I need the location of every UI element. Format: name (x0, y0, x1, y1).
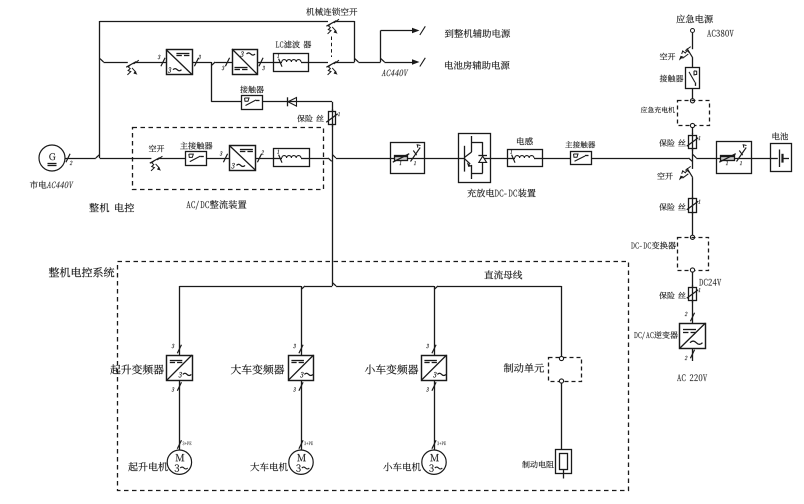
tick 3+PE 起升变频器 (177, 440, 181, 449)
contactor KM4 vertical (686, 68, 700, 89)
tick 3 before U1 (161, 58, 165, 67)
label 制动单元 (504, 363, 544, 372)
digit 1 isolator2 fuse (726, 161, 728, 165)
label 保险丝 FU4 (659, 292, 686, 299)
tick 3 above 大车变频器 (299, 345, 303, 354)
tick 2 on generator output (66, 154, 70, 163)
tick 3 after U2 (259, 58, 263, 67)
VFD box 大车变频器 (289, 356, 314, 381)
label 保险丝 FU2 (659, 139, 686, 146)
wire aux T riser (380, 31, 382, 63)
wire branch 大车变频器 upper (301, 286, 303, 355)
label 应急充电机 (641, 107, 675, 113)
node charger bottom (690, 123, 694, 127)
node dcdc top (690, 235, 694, 239)
tick 2 below inverter (690, 350, 694, 359)
dashed box 制动单元 (549, 358, 582, 382)
switch in isolator 1 (411, 148, 421, 162)
isolator box 1 (391, 143, 425, 174)
tick 3 after U1 (194, 58, 198, 67)
label 主接触器 KM1 (180, 142, 212, 150)
breaker 机械连锁空开 lower (326, 60, 339, 75)
digit 1 isolator1 fuse (399, 161, 401, 165)
label 电池 (773, 132, 788, 140)
label AC/DC整流装置 (186, 200, 246, 210)
rectifier U3 box (230, 146, 256, 171)
wire row2 a (136, 62, 166, 64)
inductor 电感 box (508, 150, 543, 167)
label 主接触器 KM3 (565, 141, 595, 148)
label 市电AC440V (30, 181, 74, 189)
wire riser x=100 (99, 21, 101, 158)
wire main d2 (336, 158, 390, 160)
wire branch 起升变频器 upper (179, 286, 181, 355)
label 充放电DC-DC装置 (467, 189, 535, 198)
wire row2 c (258, 62, 274, 64)
label 空开 emergency (660, 53, 675, 60)
wire emergency f (692, 177, 694, 198)
isolator box 2 (717, 142, 752, 174)
label 空开 below (657, 172, 672, 179)
slide bus at branch3 (434, 286, 438, 289)
wire branch 起升变频器 lower (179, 380, 181, 450)
breaker row2 QF (126, 60, 139, 75)
wire main h (591, 158, 689, 160)
label 小车变频器 (365, 364, 418, 374)
label 接触器 (240, 86, 264, 93)
dashed box AC/DC整流装置 (133, 128, 324, 190)
wire main h2 (696, 158, 716, 160)
node charger top (690, 99, 694, 103)
smoothing inductor L1 box (274, 149, 310, 167)
label 直流母线 (484, 270, 522, 279)
battery cell (770, 158, 778, 160)
breaker QF main (150, 156, 163, 171)
label 小车电机 (383, 463, 420, 472)
label 应急电源 (676, 15, 712, 24)
contactor KM1 main box (186, 152, 207, 166)
wire contactor tap down (211, 62, 213, 102)
wire row2 from riser (104, 62, 128, 64)
wire brake to resistor (561, 383, 563, 449)
wire main a (159, 158, 185, 160)
dc bus seg4 (438, 286, 562, 288)
wire main b (206, 158, 229, 160)
fuse in isolator 1 (395, 156, 408, 161)
wire main g (542, 158, 570, 160)
dc bus seg2 (305, 286, 332, 288)
wire top bus right (336, 21, 355, 23)
label 起升变频器 (110, 364, 163, 374)
label 电池房辅助电源 (445, 61, 509, 70)
dashed box 应急充电机 (678, 101, 710, 126)
wire top bus (100, 21, 328, 23)
IGBT internals (458, 158, 464, 160)
tick 3 below 小车变频器 (432, 382, 436, 391)
wire emergency j (692, 349, 694, 362)
arrow 电池房辅助电源 (385, 62, 414, 64)
cross mark at emergency riser (689, 158, 693, 161)
node brake bottom (559, 379, 563, 383)
node dcdc bottom (690, 268, 694, 272)
tick 2 after U3 (257, 154, 261, 163)
label AC380V (707, 30, 734, 37)
label 制动电阻 (522, 461, 554, 468)
motor 大车变频器 (289, 450, 313, 474)
wire fuse down to bus (332, 125, 334, 286)
wire to battery (751, 158, 770, 160)
tick 3 before U2 (225, 58, 229, 67)
fuse FU2 (692, 133, 694, 151)
LC filter box (274, 54, 309, 72)
slide bus at branch2 (301, 286, 305, 289)
wire row2 b2 (215, 62, 232, 64)
wire emergency h (692, 272, 694, 287)
tick 3+PE 大车变频器 (299, 440, 303, 449)
label 起升电机 (128, 462, 167, 471)
label 电感 (517, 137, 533, 145)
terminal 应急电源 (691, 29, 695, 33)
label 接触器 KM4 (660, 75, 684, 82)
wire emergency a (692, 33, 694, 49)
fuse FU3 (692, 197, 694, 215)
fuse FU4 (692, 285, 694, 303)
tick 3 above 小车变频器 (432, 345, 436, 354)
wire emergency c (692, 88, 694, 99)
wire main d (309, 158, 328, 160)
dc bus seg1 (179, 286, 301, 288)
wire emergency d (692, 128, 694, 135)
slide row2 at T (381, 59, 385, 62)
breaker 空开 below main (679, 166, 693, 180)
brake resistor box (556, 450, 572, 474)
contactor KM3 box (571, 152, 592, 165)
brake resistor element (560, 454, 568, 470)
slide row2 at contactor tap (212, 62, 216, 65)
tick 3 below 大车变频器 (299, 382, 303, 391)
label 整机电控 (89, 203, 134, 212)
wire to diode (262, 101, 332, 103)
slide row2 after corner (355, 59, 359, 62)
wire row2 f (358, 62, 380, 64)
label 整机电控系统 (49, 267, 114, 277)
wire emergency i (692, 301, 694, 323)
digit 1 fuse FU1 (338, 112, 340, 116)
fuse FU1 (332, 109, 334, 127)
tick 3 above 起升变频器 (177, 345, 181, 354)
dashed box DC-DC变换器 (678, 238, 709, 271)
wire branch 小车变频器 lower (434, 380, 436, 450)
digit 1 in LC filter (277, 54, 279, 58)
wire row2 d (308, 62, 328, 64)
node brake top (559, 356, 563, 360)
junction diagonal at riser (96, 155, 100, 158)
label AC440V (382, 70, 409, 77)
digit 1 FU4 (698, 288, 700, 292)
label 大车变频器 (231, 364, 284, 374)
cross mark at riser x332 (328, 158, 332, 161)
motor 起升变频器 (167, 450, 191, 474)
switch in isolator 2 (737, 148, 747, 162)
wire emergency g (692, 213, 694, 236)
motor 小车变频器 (422, 450, 446, 474)
wire corner to fuse (332, 102, 334, 111)
wire main e (425, 158, 458, 160)
dashed mechanical link (331, 37, 333, 58)
wire branch 大车变频器 lower (301, 380, 303, 450)
fuse in isolator 2 (721, 156, 735, 161)
label 大车电机 (250, 463, 287, 472)
digit 1 L1 (277, 150, 279, 154)
label 到整机辅助电源 (445, 29, 510, 38)
dc bus seg3 (336, 286, 434, 288)
label 保险丝 FU3 (659, 203, 686, 210)
generator G 市电 (39, 145, 65, 171)
battery box (771, 144, 792, 172)
wire generator output (65, 158, 96, 160)
breaker 空开 emergency (679, 47, 693, 61)
dashed box 整机电控系统 (118, 262, 629, 491)
tick 3 before U3 (223, 154, 227, 163)
contactor KM2 box (242, 96, 263, 110)
VFD box 小车变频器 (422, 356, 447, 381)
tick 3 below 起升变频器 (177, 382, 181, 391)
wire row2 e (336, 62, 355, 64)
label DC-DC变换器 (631, 242, 676, 250)
wire emergency e (692, 149, 694, 169)
label DC24V (699, 279, 721, 286)
VFD box 起升变频器 (167, 356, 193, 381)
label 机械连锁空开 (306, 8, 357, 16)
converter U1 AC/DC (167, 50, 193, 75)
label LC滤波器 (276, 41, 311, 49)
wire row2 b (192, 62, 211, 64)
wire branch 小车变频器 upper (434, 286, 436, 355)
wire junction to breaker (100, 158, 152, 160)
label 保险丝 FU1 (297, 115, 324, 122)
label 空开 acdc (149, 145, 164, 152)
tick 3+PE 小车变频器 (432, 440, 436, 449)
digit 1 电感 (510, 150, 512, 154)
digit 1 FU2 (698, 136, 700, 140)
digit 1 FU3 (698, 200, 700, 204)
breaker 机械连锁空开 upper (326, 19, 339, 34)
digit 1 isolator2 switch (740, 161, 742, 165)
wire main f (490, 158, 507, 160)
wire main c (256, 158, 274, 160)
wire emergency b (692, 57, 694, 67)
diode D1 (287, 97, 289, 106)
digit 1 isolator1 switch (414, 161, 416, 165)
arrow 到整机辅助电源 (381, 30, 413, 32)
tick 2 above inverter (690, 313, 694, 322)
IGBT chopper box (459, 134, 491, 183)
slide bus at feed (332, 283, 336, 286)
converter U2 DC/AC (233, 50, 258, 75)
inverter DC/AC box (680, 324, 706, 349)
slide row2 at riser (100, 59, 104, 62)
label AC 220V (677, 374, 707, 381)
wire brake branch (561, 286, 563, 358)
label DC/AC逆变器 (634, 331, 678, 339)
